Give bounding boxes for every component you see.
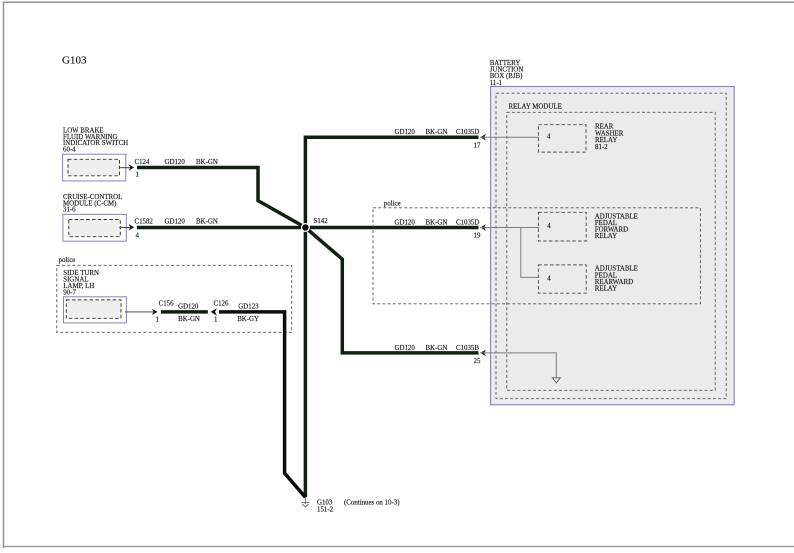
svg-text:(Continues on 10-3): (Continues on 10-3) bbox=[344, 500, 400, 507]
svg-text:GD120: GD120 bbox=[395, 129, 416, 136]
pin 1 connector C156 bbox=[125, 300, 174, 323]
BJB inner dashed border bbox=[496, 93, 726, 399]
svg-text:BK-GN: BK-GN bbox=[196, 159, 218, 166]
svg-text:151-2: 151-2 bbox=[317, 506, 334, 513]
svg-text:BK-GY: BK-GY bbox=[237, 316, 259, 323]
pin 4 connector C1582 bbox=[120, 219, 154, 240]
svg-text:17: 17 bbox=[474, 142, 481, 149]
svg-text:1: 1 bbox=[214, 317, 218, 324]
wire GD120 BK-GN from S142 right to C1035D pin 19 bbox=[305, 226, 478, 230]
wire GD123 BK-GY from C126 down to ground G103 bbox=[219, 303, 305, 497]
ground G103 151-2 bbox=[301, 498, 399, 514]
splice S142 bbox=[301, 218, 328, 232]
wire GD120 BK-GN from C156 to C126 bbox=[161, 303, 208, 323]
svg-text:C1035D: C1035D bbox=[456, 220, 479, 227]
wire GD120 BK-GN from C124 to splice S142 bbox=[137, 159, 305, 228]
svg-text:GD120: GD120 bbox=[165, 159, 186, 166]
svg-text:25: 25 bbox=[474, 358, 481, 365]
connector C1035D pin 19 (arrow into BJB) bbox=[395, 220, 486, 240]
svg-text:GD120: GD120 bbox=[165, 219, 186, 226]
relay module box bbox=[507, 104, 715, 391]
relay: ADJUSTABLE PEDAL REARWARD RELAY, pin 4 bbox=[538, 265, 637, 293]
svg-text:90-7: 90-7 bbox=[63, 290, 76, 297]
svg-text:1: 1 bbox=[136, 172, 140, 179]
svg-text:60-4: 60-4 bbox=[63, 146, 76, 153]
wire GD120 BK-GN from C1582 to splice S142 bbox=[137, 219, 305, 228]
component: CRUISE-CONTROL MODULE (C-CM) 31-6 bbox=[63, 194, 126, 241]
svg-text:1: 1 bbox=[156, 317, 160, 324]
svg-text:C1582: C1582 bbox=[135, 219, 154, 226]
svg-text:BK-GN: BK-GN bbox=[426, 220, 448, 227]
connector C126 pin 1 (arrow pointing left) bbox=[211, 300, 229, 323]
police option box (right) bbox=[373, 201, 700, 304]
svg-text:4: 4 bbox=[547, 134, 551, 141]
component: SIDE TURN SIGNAL LAMP, LH 90-7 bbox=[63, 270, 126, 323]
wire GD120 BK-GN from S142 down to ground G103 bbox=[304, 228, 308, 498]
wire: BJB internal from C1035D pin 17 to rear washer relay pin 4 bbox=[480, 136, 539, 138]
svg-text:BK-GN: BK-GN bbox=[196, 219, 218, 226]
svg-text:11-1: 11-1 bbox=[490, 80, 503, 87]
svg-text:police: police bbox=[59, 257, 76, 264]
svg-text:81-2: 81-2 bbox=[595, 144, 608, 151]
component: BATTERY JUNCTION BOX (BJB) 11-1 bbox=[490, 60, 735, 405]
svg-text:4: 4 bbox=[136, 233, 140, 240]
police option box (left) bbox=[57, 257, 292, 332]
connector C1035B pin 25 (arrow into BJB) bbox=[395, 345, 486, 365]
wire GD120 BK-GN from S142 up and right to C1035D pin 17 bbox=[305, 137, 478, 227]
svg-text:19: 19 bbox=[474, 233, 481, 240]
svg-text:RELAY MODULE: RELAY MODULE bbox=[509, 104, 562, 111]
svg-text:RELAY: RELAY bbox=[595, 286, 617, 293]
svg-text:C156: C156 bbox=[159, 300, 174, 307]
svg-text:BK-GN: BK-GN bbox=[426, 129, 448, 136]
svg-text:GD120: GD120 bbox=[178, 303, 199, 310]
connector C1035D pin 17 (arrow into BJB) bbox=[395, 129, 486, 149]
relay: ADJUSTABLE PEDAL FORWARD RELAY, pin 4 bbox=[538, 212, 637, 241]
svg-text:31-6: 31-6 bbox=[63, 207, 76, 214]
svg-text:GD123: GD123 bbox=[238, 303, 259, 310]
wire GD120 BK-GN from S142 diagonal down to C1035B pin 25 bbox=[305, 228, 478, 353]
pin 1 connector C124 bbox=[120, 159, 150, 179]
svg-text:C126: C126 bbox=[214, 300, 229, 307]
svg-text:BK-GN: BK-GN bbox=[426, 345, 448, 352]
component: LOW BRAKE FLUID WARNING INDICATOR SWITCH 60-4 bbox=[63, 128, 129, 181]
svg-text:C1035B: C1035B bbox=[456, 345, 479, 352]
svg-text:4: 4 bbox=[547, 275, 551, 282]
wire: BJB internal from C1035D pin 19 to pedal relay pins 4 bbox=[480, 228, 539, 278]
svg-text:BK-GN: BK-GN bbox=[178, 316, 200, 323]
svg-text:G103: G103 bbox=[62, 55, 87, 67]
svg-text:police: police bbox=[384, 201, 401, 208]
svg-text:S142: S142 bbox=[314, 218, 329, 225]
relay: REAR WASHER RELAY 81-2, pin 4 bbox=[538, 124, 623, 152]
svg-text:GD120: GD120 bbox=[395, 345, 416, 352]
svg-text:C1035D: C1035D bbox=[456, 129, 479, 136]
wire: BJB internal from C1035B pin 25 to BJB ground bbox=[480, 353, 556, 378]
svg-text:C124: C124 bbox=[135, 159, 150, 166]
svg-text:4: 4 bbox=[547, 223, 551, 230]
svg-text:RELAY: RELAY bbox=[595, 233, 617, 240]
svg-text:GD120: GD120 bbox=[395, 220, 416, 227]
BJB internal ground arrow bbox=[552, 378, 560, 383]
